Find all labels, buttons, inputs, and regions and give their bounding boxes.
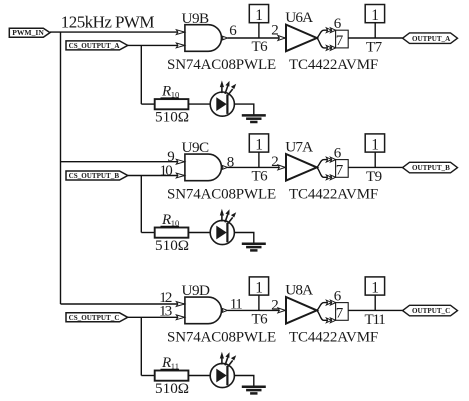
wire PWM bus to U9D pin 12: [61, 303, 185, 305]
resistor R11: [155, 371, 189, 381]
arrow into U8A: [278, 308, 285, 313]
port flag PWM_IN: [9, 28, 50, 37]
resistor designator R11: [161, 355, 180, 371]
test point T7 box: [365, 5, 384, 25]
arrows pin 7: [326, 175, 335, 180]
svg-text:OUTPUT_A: OUTPUT_A: [412, 35, 451, 43]
wire PWM bus to U9C pin 9: [61, 161, 185, 163]
arrows pin 6: [326, 157, 335, 162]
svg-text:10: 10: [160, 163, 173, 179]
svg-text:7: 7: [336, 33, 344, 49]
svg-text:U9C: U9C: [182, 139, 210, 156]
svg-text:7: 7: [336, 162, 344, 178]
resistor designator R10: [161, 212, 180, 228]
wire pins to OUTPUT_B: [348, 166, 402, 168]
svg-text:T6: T6: [252, 39, 269, 55]
svg-text:13: 13: [159, 304, 172, 320]
wire U8A output to pin 7: [317, 310, 336, 320]
driver U7A triangle: [286, 154, 317, 181]
svg-text:2: 2: [271, 154, 279, 170]
arrow into U6A: [278, 36, 285, 41]
svg-text:OUTPUT_B: OUTPUT_B: [412, 164, 450, 172]
AND gate U9B: [176, 25, 227, 52]
svg-text:510Ω: 510Ω: [155, 380, 189, 397]
svg-text:CS_OUTPUT_A: CS_OUTPUT_A: [69, 42, 121, 50]
port flag CS_OUTPUT_A: [66, 41, 128, 50]
svg-text:6: 6: [334, 289, 342, 305]
wire resistor to LED: [188, 375, 210, 377]
ground symbol channel C: [242, 387, 266, 394]
svg-text:6: 6: [334, 16, 342, 32]
svg-text:R: R: [161, 84, 171, 100]
wire drop corner to resistor R10: [141, 103, 154, 105]
svg-text:R: R: [161, 212, 171, 228]
resistor R10: [155, 228, 189, 238]
wire U6A output to pin 6: [317, 30, 336, 38]
wire resistor to LED: [188, 232, 210, 234]
svg-text:T6: T6: [252, 168, 269, 184]
test point T6 box: [249, 5, 268, 25]
wire LED to ground: [234, 233, 253, 244]
wire junction drop to resistor branch: [140, 317, 142, 375]
port flag OUTPUT_A: [403, 33, 458, 44]
port flag CS_OUTPUT_B: [66, 171, 128, 180]
wire pins to OUTPUT_C: [348, 309, 402, 311]
svg-text:2: 2: [271, 298, 279, 314]
port flag OUTPUT_C: [403, 305, 458, 316]
test point T9 box: [365, 134, 384, 154]
wire U7A output to pin 6: [317, 160, 336, 168]
wire U6A output to pin 7: [317, 38, 336, 48]
test point T11 box: [365, 277, 384, 297]
ground symbol channel A: [242, 115, 266, 122]
svg-text:1: 1: [371, 137, 379, 154]
wire junction drop to resistor branch: [140, 176, 142, 233]
wire U9B output to U6A input: [228, 37, 285, 39]
svg-text:1: 1: [255, 280, 263, 297]
AND gate U9C: [176, 154, 227, 181]
svg-text:T6: T6: [252, 311, 269, 327]
wire U7A output to pin 7: [317, 167, 336, 177]
svg-text:U6A: U6A: [285, 9, 313, 26]
svg-text:U7A: U7A: [285, 138, 313, 155]
wire PWM_IN to U9B input: [50, 31, 185, 33]
svg-text:U9D: U9D: [182, 282, 211, 299]
svg-text:TC4422AVMF: TC4422AVMF: [289, 186, 378, 202]
arrows pin 7: [326, 46, 335, 51]
LED indicator channel C: [210, 352, 236, 388]
wire junction drop to resistor branch: [140, 45, 142, 104]
arrows pin 6: [326, 300, 335, 305]
wire PWM bus vertical: [60, 32, 62, 304]
svg-text:510Ω: 510Ω: [155, 108, 189, 125]
test point T6 box: [249, 134, 268, 154]
svg-text:1: 1: [255, 137, 263, 154]
wire CS_OUTPUT_C to U9D input: [128, 316, 185, 318]
driver U8A triangle: [286, 297, 317, 324]
svg-text:T7: T7: [366, 39, 383, 55]
arrow into U7A: [278, 165, 285, 170]
svg-text:6: 6: [334, 146, 342, 162]
test point T6 stem: [258, 295, 260, 310]
test point T6 stem: [258, 23, 260, 38]
wire CS_OUTPUT_A to U9B input: [128, 44, 185, 46]
svg-text:2: 2: [271, 23, 279, 39]
wire U9C output to U7A input: [228, 166, 285, 168]
svg-text:1: 1: [371, 280, 379, 297]
pins 6/7 tie box: [336, 303, 349, 321]
svg-text:SN74AC08PWLE: SN74AC08PWLE: [167, 186, 276, 202]
wire U9D output to U8A input: [228, 309, 285, 311]
wire resistor to LED: [188, 103, 210, 105]
LED indicator channel A: [210, 80, 236, 116]
svg-text:U9B: U9B: [182, 10, 210, 27]
pins 6/7 tie box: [336, 160, 349, 178]
svg-text:6: 6: [229, 23, 237, 39]
svg-text:1: 1: [371, 7, 379, 24]
driver U6A triangle: [286, 25, 317, 52]
wire LED to ground: [234, 376, 253, 387]
svg-text:PWM_IN: PWM_IN: [12, 28, 44, 37]
svg-text:T11: T11: [365, 312, 386, 328]
port flag OUTPUT_B: [403, 162, 458, 173]
svg-text:CS_OUTPUT_C: CS_OUTPUT_C: [69, 314, 120, 322]
wire LED to ground: [234, 104, 253, 115]
svg-text:U8A: U8A: [285, 281, 313, 298]
svg-text:CS_OUTPUT_B: CS_OUTPUT_B: [69, 172, 120, 180]
ground symbol channel B: [242, 244, 266, 251]
test point T11 stem: [374, 295, 376, 310]
arrows pin 7: [326, 318, 335, 323]
svg-text:SN74AC08PWLE: SN74AC08PWLE: [167, 57, 276, 73]
wire CS_OUTPUT_B to U9C input: [128, 175, 185, 177]
resistor R10: [155, 99, 189, 109]
wire pins to OUTPUT_A: [348, 37, 402, 39]
svg-text:7: 7: [336, 305, 344, 321]
wire U8A output to pin 6: [317, 303, 336, 311]
svg-text:8: 8: [227, 155, 235, 171]
test point T9 stem: [374, 152, 376, 167]
svg-text:T9: T9: [366, 169, 382, 185]
pins 6/7 tie box: [336, 30, 349, 48]
svg-text:OUTPUT_C: OUTPUT_C: [412, 307, 450, 315]
svg-text:R: R: [161, 355, 171, 371]
arrows pin 6: [326, 28, 335, 33]
wire drop corner to resistor R10: [141, 232, 154, 234]
test point T7 stem: [374, 23, 376, 38]
AND gate U9D: [176, 297, 227, 324]
test point T6 box: [249, 277, 268, 297]
svg-text:TC4422AVMF: TC4422AVMF: [289, 57, 378, 73]
resistor designator R10: [161, 84, 180, 100]
LED indicator channel B: [210, 209, 236, 245]
svg-text:510Ω: 510Ω: [155, 237, 189, 254]
test point T6 stem: [258, 152, 260, 167]
svg-text:SN74AC08PWLE: SN74AC08PWLE: [167, 329, 276, 345]
port flag CS_OUTPUT_C: [66, 313, 128, 322]
wire drop corner to resistor R11: [141, 375, 154, 377]
svg-text:TC4422AVMF: TC4422AVMF: [289, 329, 378, 345]
svg-text:1: 1: [255, 7, 263, 24]
svg-text:125kHz PWM: 125kHz PWM: [61, 13, 155, 32]
